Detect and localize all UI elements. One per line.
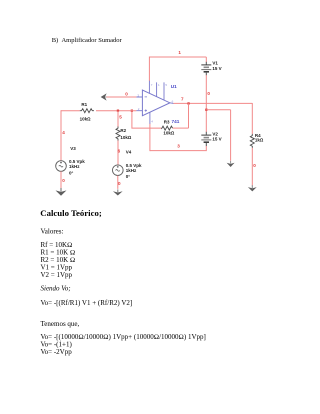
wire V3 bottom xyxy=(60,171,62,191)
svg-text:B) Amplificador Sumador: B) Amplificador Sumador xyxy=(52,37,123,44)
wire pin4 riser xyxy=(149,124,151,152)
svg-text:0: 0 xyxy=(207,91,210,96)
wire R4 bottom xyxy=(251,148,253,186)
svg-text:R2: R2 xyxy=(120,128,126,133)
label V4 params xyxy=(126,163,142,179)
svg-text:7: 7 xyxy=(181,96,184,101)
svg-text:6: 6 xyxy=(172,99,174,103)
svg-text:10kΩ: 10kΩ xyxy=(80,117,92,122)
svg-text:6: 6 xyxy=(118,149,121,154)
ground middle xyxy=(227,161,235,167)
source V4 xyxy=(113,165,124,176)
svg-text:0: 0 xyxy=(125,91,128,96)
ground noninverting input points left xyxy=(101,93,110,100)
svg-text:U1: U1 xyxy=(171,84,177,89)
wire V1 top stem xyxy=(205,57,207,62)
junction R2 tap xyxy=(117,110,119,112)
wire V3 column top xyxy=(60,110,62,161)
svg-text:4: 4 xyxy=(62,130,65,135)
resistor R3 xyxy=(161,126,172,130)
ground V3 xyxy=(56,188,67,196)
resistor R1 xyxy=(80,109,94,113)
op-amp input pins xyxy=(136,97,142,111)
wire ground branch horizontal xyxy=(206,109,230,111)
resistor R4 xyxy=(250,134,254,148)
svg-text:10kΩ: 10kΩ xyxy=(163,131,175,136)
label V3 params xyxy=(69,159,85,176)
wire feedback horizontal right xyxy=(173,127,189,129)
wire R2 top lead xyxy=(117,111,119,127)
svg-text:1kHz: 1kHz xyxy=(69,164,80,169)
wire top rail net 1 xyxy=(149,56,206,58)
svg-text:5: 5 xyxy=(119,115,122,120)
svg-text:1kHz: 1kHz xyxy=(126,168,137,173)
svg-text:15 V: 15 V xyxy=(212,137,221,142)
svg-text:5: 5 xyxy=(165,83,167,87)
op-amp top pins xyxy=(149,81,164,100)
wire feedback horizontal left xyxy=(132,111,161,128)
svg-text:15 V: 15 V xyxy=(212,66,221,71)
battery V2 xyxy=(201,132,211,146)
svg-text:3: 3 xyxy=(177,144,180,149)
svg-text:0: 0 xyxy=(62,178,65,183)
op-amp +/- marks xyxy=(145,97,147,112)
svg-text:10kΩ: 10kΩ xyxy=(120,135,132,140)
svg-text:R1: R1 xyxy=(81,102,87,107)
wire feedback vertical xyxy=(188,103,190,128)
op-amp bottom pin xyxy=(149,112,151,124)
svg-text:Vo= -2Vpp: Vo= -2Vpp xyxy=(41,348,73,356)
svg-text:1kΩ: 1kΩ xyxy=(255,138,264,143)
source V3 xyxy=(56,161,67,172)
svg-text:Valores:: Valores: xyxy=(41,228,64,236)
wire output net xyxy=(173,102,252,104)
junction sum node xyxy=(131,110,133,112)
wire inverting row xyxy=(61,110,136,112)
ground R4 xyxy=(248,185,257,191)
svg-text:Calculo Teórico;: Calculo Teórico; xyxy=(40,208,102,218)
svg-text:0: 0 xyxy=(118,181,121,186)
wire R4 top xyxy=(251,103,253,134)
op-amp output pin xyxy=(170,102,174,105)
svg-text:0°: 0° xyxy=(126,174,131,179)
wire R2 to V4 xyxy=(117,141,119,165)
ground V4 xyxy=(113,189,123,195)
svg-text:Siendo Vo;: Siendo Vo; xyxy=(41,285,71,293)
wire noninverting ground xyxy=(107,96,137,98)
svg-text:0: 0 xyxy=(253,163,256,168)
svg-text:0°: 0° xyxy=(69,170,74,175)
battery V1 xyxy=(201,62,211,76)
wire pin7 riser xyxy=(148,57,150,82)
op-amp U1 triangle xyxy=(136,81,173,124)
svg-text:V3: V3 xyxy=(70,146,76,151)
svg-text:Tenemos que,: Tenemos que, xyxy=(41,320,80,328)
svg-text:1: 1 xyxy=(158,83,160,87)
svg-text:741: 741 xyxy=(172,119,180,124)
op-amp pin numbers xyxy=(137,83,173,123)
wire ground branch vertical xyxy=(230,110,232,161)
wire V1 minus down xyxy=(205,75,207,132)
resistor R2 xyxy=(116,127,120,141)
junction at ground branch xyxy=(205,109,207,111)
wire V4 bottom xyxy=(117,176,119,189)
svg-text:R3: R3 xyxy=(164,119,170,124)
junction feedback tap xyxy=(187,102,189,104)
svg-text:4: 4 xyxy=(151,120,153,124)
svg-text:1: 1 xyxy=(178,50,181,55)
wire V2 minus to bottom rail xyxy=(150,146,206,151)
svg-text:V4: V4 xyxy=(126,150,132,155)
svg-text:Vo= -[(Rf/R1) V1 + (Rf/R2) V2]: Vo= -[(Rf/R1) V1 + (Rf/R2) V2] xyxy=(41,299,133,307)
svg-text:7: 7 xyxy=(151,83,153,87)
svg-text:V2 = 1Vpp: V2 = 1Vpp xyxy=(41,271,73,279)
